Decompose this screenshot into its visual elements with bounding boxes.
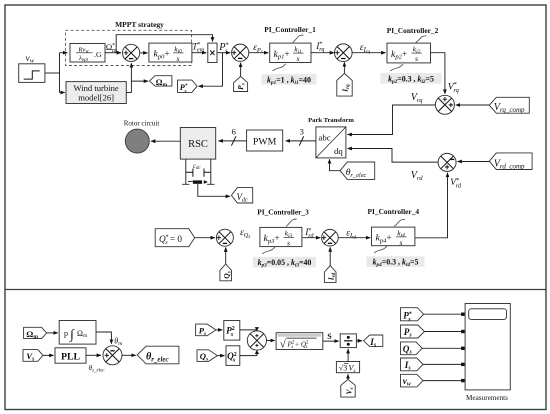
from tag V_rq_comp xyxy=(489,97,529,114)
gains note k_p1 xyxy=(262,74,317,86)
svg-text:dq: dq xyxy=(334,146,343,156)
summing junction sum1 xyxy=(123,44,140,61)
svg-text:θs_elec: θs_elec xyxy=(89,364,106,373)
summing junction sum2 xyxy=(232,44,249,61)
wire V_s to PLL xyxy=(43,354,54,356)
wire omega feedback up to sum1 xyxy=(130,63,132,92)
wire sum1 to PI0 xyxy=(140,52,148,54)
svg-text:PI_Controller_3: PI_Controller_3 xyxy=(257,207,309,216)
svg-text:Vrq: Vrq xyxy=(411,92,424,104)
svg-text:Vrd: Vrd xyxy=(411,170,424,182)
goto tag Omega_m (top) xyxy=(150,76,172,88)
wire Q_s to square xyxy=(217,355,224,357)
scope tag P_s* xyxy=(401,308,424,323)
wire Vrq to park input1 xyxy=(348,105,436,135)
dc source bar xyxy=(188,180,193,182)
wire to V_dc tag xyxy=(198,184,230,197)
wire PLL to sum xyxy=(86,354,101,356)
svg-text:p: p xyxy=(64,329,68,338)
PI block k_p2 xyxy=(387,43,431,63)
goto tag P_s* xyxy=(178,80,198,94)
callout curve bottom PI1 xyxy=(273,64,286,71)
from tag V_s (bottom panel) xyxy=(23,350,43,363)
svg-text:√: √ xyxy=(280,338,287,350)
svg-text:.G: .G xyxy=(94,50,102,59)
svg-text:vw: vw xyxy=(26,54,35,65)
bus slash 3 xyxy=(299,136,304,145)
wire wind turbine output xyxy=(126,92,131,94)
MPPT dashed boundary xyxy=(66,30,192,65)
wire P_s^2 to sum top xyxy=(240,329,257,331)
wire Omega_m to integrator xyxy=(47,332,58,334)
svg-text:PLL: PLL xyxy=(61,352,81,363)
callout curve top PI3 xyxy=(286,219,297,226)
block P_s^2 xyxy=(224,321,240,341)
svg-text:εIrq: εIrq xyxy=(360,42,371,55)
bus slash 6 xyxy=(231,136,236,145)
summing junction Vrd xyxy=(438,153,456,171)
PLL block xyxy=(55,348,86,363)
scope tag Q_s xyxy=(401,342,423,355)
multiplier block xyxy=(208,43,217,62)
svg-text:6: 6 xyxy=(232,127,237,137)
summing junction sum4 xyxy=(216,229,233,246)
wire Q_s to scope xyxy=(422,347,461,349)
PWM block xyxy=(247,130,283,151)
from tag V_rd_comp xyxy=(489,153,532,170)
svg-text:s: s xyxy=(296,54,299,63)
wire I_rd to sum5 xyxy=(329,247,331,265)
svg-text:Measurements: Measurements xyxy=(466,394,508,402)
wire step output xyxy=(45,72,60,74)
wire PI4 output up to Vrd sum xyxy=(415,173,448,238)
summing junction sum3 xyxy=(335,44,353,62)
rotor circuit circle xyxy=(125,129,149,153)
wire I_rq to sum3 xyxy=(343,62,345,73)
svg-text:PI_Controller_4: PI_Controller_4 xyxy=(368,207,420,216)
wire v_w to scope xyxy=(423,380,462,382)
wire theta_r_elec to park bottom xyxy=(330,159,341,170)
from tag P_s (power calc) xyxy=(196,324,216,337)
wire sum2 to PI1 xyxy=(249,52,268,54)
from tag theta_r_elec (park) xyxy=(340,162,375,179)
wire omega feed to multiplier top xyxy=(116,35,212,53)
svg-text:3: 3 xyxy=(300,127,305,137)
wind turbine model block xyxy=(66,82,126,104)
svg-text:Wind turbine: Wind turbine xyxy=(73,83,118,93)
wire omega branch to goto tag xyxy=(131,80,148,82)
wire sum to theta_r_elec tag xyxy=(122,354,136,356)
callout curve bottom PI2 xyxy=(390,64,403,71)
goto tag I_s xyxy=(364,335,383,349)
svg-text:Rotor circuit: Rotor circuit xyxy=(124,120,160,128)
wire PWM to RSC xyxy=(219,140,247,142)
source block Qs*=0 xyxy=(155,229,195,247)
wire multiplier to sum2 xyxy=(217,52,230,54)
svg-text:abc: abc xyxy=(319,132,331,142)
summing junction sum5 xyxy=(322,229,339,246)
PI block k_p1 xyxy=(270,43,311,63)
dc-link left leg xyxy=(182,159,189,184)
svg-text:εQs: εQs xyxy=(240,228,250,240)
PI block k_p4 xyxy=(372,227,415,247)
svg-text:I*rq: I*rq xyxy=(315,41,324,54)
svg-text:s: s xyxy=(176,54,179,63)
callout curve bottom PI3 xyxy=(262,247,275,254)
wire PI0 to multiplier xyxy=(192,52,206,54)
wire RSC to rotor xyxy=(151,140,180,142)
integrator block p int Omega_m xyxy=(59,321,96,345)
svg-text:V*rd: V*rd xyxy=(450,177,462,190)
wire sqrt to divide xyxy=(323,340,339,342)
Park transform block xyxy=(316,127,346,158)
callout curve top PI2 xyxy=(416,36,427,43)
from tag Q_s (up) xyxy=(220,264,232,281)
summing junction theta xyxy=(103,346,122,365)
scope block Measurements xyxy=(465,304,510,390)
wire to MPPT gain block xyxy=(60,52,68,54)
goto tag V_dc xyxy=(231,188,252,204)
summing junction S xyxy=(247,331,266,350)
scope tag P_s xyxy=(401,325,425,338)
callout curve top PI4 xyxy=(394,219,405,226)
svg-text:εIrd: εIrd xyxy=(346,228,357,240)
wire PI3 to sum5 xyxy=(303,237,321,239)
svg-text:s: s xyxy=(287,238,290,247)
svg-text:√3: √3 xyxy=(339,364,347,373)
svg-text:s: s xyxy=(415,54,418,63)
gains note k_p3 xyxy=(253,257,316,269)
svg-text:V*rq: V*rq xyxy=(448,81,460,94)
wire P_s* to scope xyxy=(424,313,462,315)
divide block xyxy=(340,334,356,348)
wire gain to sum1 xyxy=(105,52,121,54)
wire sum5 to PI4 xyxy=(338,237,370,239)
from tag I_rd (up) xyxy=(324,266,337,283)
svg-text:εPs: εPs xyxy=(253,43,263,55)
svg-text:cdc: cdc xyxy=(193,163,201,171)
wire Q_s to sum4 xyxy=(225,248,227,265)
svg-text:θm: θm xyxy=(114,337,122,348)
gain block Rvw/lambda.G xyxy=(70,44,105,63)
svg-text:PWM: PWM xyxy=(253,136,277,147)
wire V_s up to sqrt3Vs xyxy=(347,374,349,379)
wire Qs* to sum4 xyxy=(195,237,215,239)
from tag Q_s (power calc) xyxy=(197,350,217,363)
wire I_s to scope xyxy=(423,363,462,365)
wire to wind turbine model xyxy=(60,92,65,94)
wire V_rd_comp to sum xyxy=(458,161,490,163)
wire park to PWM xyxy=(286,140,316,142)
wire PI2 output elbow down xyxy=(431,53,445,94)
wire P_s to square xyxy=(216,329,222,331)
wire sum to sqrt block xyxy=(267,340,275,342)
wire sqrt3Vs to divide bottom xyxy=(347,349,349,362)
callout curve bottom PI4 xyxy=(374,246,387,253)
RSC block xyxy=(180,128,215,160)
dc-link right leg xyxy=(207,159,214,184)
wire branch vertical xyxy=(59,53,61,93)
wire Q_s^2 to sum bottom xyxy=(240,353,257,356)
from tag P_s (up) xyxy=(234,76,248,91)
panel divider xyxy=(5,289,546,291)
callout curve top PI1 xyxy=(293,35,304,42)
wire branch P_s* down to goto tag xyxy=(199,53,223,86)
wire theta_m elbow xyxy=(96,332,111,344)
gains note k_p4 xyxy=(367,256,425,268)
summing junction Vrq xyxy=(435,95,454,114)
wire V_rq_comp to sum xyxy=(456,104,490,106)
svg-text:T*em: T*em xyxy=(192,41,204,54)
step source block xyxy=(19,64,45,83)
wire P_s to sum2 xyxy=(240,63,242,76)
from tag Omega_m (bottom panel) xyxy=(24,327,47,340)
wire Vrd to park input2 xyxy=(348,149,439,163)
wire sum3 to PI2 xyxy=(352,52,386,54)
goto tag theta_r_elec (bottom) xyxy=(137,346,179,364)
PI block k_p0 xyxy=(149,43,192,63)
gains note k_p2 xyxy=(381,73,442,85)
block sqrt3 V_s xyxy=(336,362,359,375)
svg-text:PI_Controller_1: PI_Controller_1 xyxy=(264,25,316,34)
scope tag I_s xyxy=(401,358,424,371)
svg-text:Park Transform: Park Transform xyxy=(308,117,354,124)
sqrt block xyxy=(276,333,323,351)
scope input ports xyxy=(461,313,465,383)
from tag V_s (up) xyxy=(341,379,355,397)
wire divide to I_s tag xyxy=(356,340,362,342)
PI block k_p3 xyxy=(260,227,302,247)
wire P_s to scope xyxy=(424,331,461,333)
block Q_s^2 xyxy=(226,346,240,366)
svg-text:MPPT strategy: MPPT strategy xyxy=(115,20,164,29)
scope tag v_w xyxy=(401,374,424,387)
svg-text:model[26]: model[26] xyxy=(78,93,114,103)
svg-text:RSC: RSC xyxy=(188,139,208,150)
from tag I_rq (up) xyxy=(337,73,352,96)
svg-text:PI_Controller_2: PI_Controller_2 xyxy=(387,26,439,35)
svg-text:S: S xyxy=(327,332,332,341)
wire PI1 to sum3 xyxy=(311,52,334,54)
svg-text:s: s xyxy=(399,238,402,247)
step glyph xyxy=(24,71,40,79)
capacitor plates xyxy=(186,169,211,177)
